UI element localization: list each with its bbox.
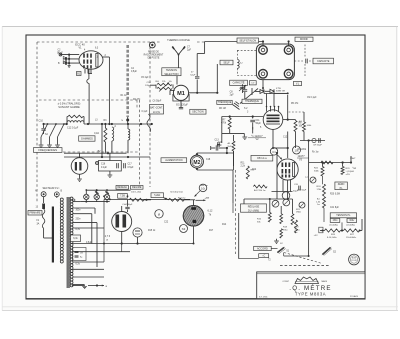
label capacite box — [313, 58, 334, 64]
small circle left of 12AT7 — [270, 148, 277, 155]
dashed link self bottom — [237, 75, 256, 77]
pot P1 — [310, 177, 316, 183]
svg-text:50µF: 50µF — [256, 123, 262, 125]
svg-text:M1: M1 — [177, 91, 185, 97]
title block border — [257, 272, 365, 299]
terminal block top wires — [262, 42, 264, 46]
resistor R23 — [341, 167, 344, 175]
resistor 0.1 ohm vertical — [104, 124, 106, 128]
svg-text:10t: 10t — [201, 186, 205, 190]
resistor R heater 2 — [169, 198, 185, 201]
dashed link block to capacite — [294, 60, 304, 62]
left loop wire — [238, 213, 240, 252]
svg-text:(+): (+) — [305, 177, 308, 179]
cap CH — [318, 138, 320, 143]
small circle below V3 — [180, 225, 188, 233]
mains terminal A — [41, 192, 46, 197]
svg-text:SELF: SELF — [223, 61, 230, 64]
wire from 277 down — [276, 153, 278, 199]
resistor ladder R27 — [344, 229, 360, 232]
label thermique box 1 — [217, 100, 232, 104]
label section box — [190, 109, 206, 114]
svg-text:DU POSTE: DU POSTE — [148, 58, 160, 60]
svg-text:R5 47k: R5 47k — [291, 103, 299, 105]
svg-text:SELF ETALON: SELF ETALON — [239, 39, 256, 42]
svg-text:ACCORD: ACCORD — [257, 247, 268, 250]
svg-text:0,1Ω: 0,1Ω — [94, 133, 99, 135]
ground posts below switches — [40, 137, 42, 145]
wire V2 grid row — [222, 116, 263, 118]
svg-text:DU ≈(MM): DU ≈(MM) — [248, 209, 259, 212]
wire bus y200 connections — [144, 199, 151, 201]
fuse F1 — [43, 197, 45, 203]
M1 trimmer network — [157, 83, 172, 85]
diode D1 — [256, 91, 260, 93]
inner dashed box bottom — [63, 151, 140, 153]
heater lamp 1 — [84, 194, 89, 199]
svg-text:MODIF: MODIF — [300, 38, 309, 41]
continuation arrow a — [88, 285, 104, 287]
hatch mark diagonal — [233, 102, 240, 110]
variable capacitor C15 — [262, 80, 264, 88]
svg-text:½ 12AU7: ½ 12AU7 — [251, 134, 263, 138]
svg-text:+HT: +HT — [205, 197, 210, 200]
tube V3a 12AT7 envelope — [277, 159, 298, 180]
heater lamp 2 — [94, 194, 99, 199]
svg-text:±20,0(8)a: ±20,0(8)a — [346, 225, 356, 227]
cap C10 — [43, 124, 45, 128]
shield dashed vertical separator — [149, 42, 151, 187]
dashed vertical separator right — [235, 170, 237, 254]
label thermo-couple — [160, 37, 197, 42]
label self box — [220, 60, 233, 65]
svg-text:SECTEUR 1V≈: SECTEUR 1V≈ — [42, 187, 60, 190]
pin row below 12AT7 — [272, 191, 293, 193]
tap bus verticals — [91, 214, 93, 244]
V3 pins — [193, 200, 195, 206]
wires terminal block bottom to V2 — [262, 88, 264, 92]
diagonal wire T3 to thermique — [240, 89, 258, 104]
terminal T3 — [259, 70, 268, 79]
transformer primary shield bar — [52, 207, 54, 263]
svg-text:C16: C16 — [101, 164, 106, 166]
svg-text:RÉGLAGE: RÉGLAGE — [248, 205, 260, 208]
svg-text:± 0.5% (TRALORS): ± 0.5% (TRALORS) — [58, 102, 81, 106]
wire down right col — [308, 141, 310, 163]
svg-text:52µF: 52µF — [190, 75, 196, 77]
transformer core — [67, 197, 70, 288]
svg-text:0.5µF: 0.5µF — [128, 167, 135, 169]
inductor self symbol — [237, 60, 239, 69]
svg-text:3A: 3A — [37, 222, 40, 225]
terminal T1 — [259, 46, 268, 55]
cap C19 above M2 — [211, 147, 216, 149]
terminal block body — [256, 44, 294, 80]
flexible lead wavy — [147, 114, 151, 132]
label reglage box — [241, 204, 267, 212]
svg-text:TENSION PL: TENSION PL — [336, 214, 351, 217]
svg-text:±2%: ±2% — [346, 174, 350, 176]
thermocouple junction symbol — [172, 47, 185, 55]
svg-text:C19: C19 — [218, 142, 223, 144]
filter box — [73, 248, 87, 261]
svg-text:SECTION: SECTION — [192, 110, 204, 114]
svg-text:PRIMAIRE: PRIMAIRE — [29, 212, 41, 215]
switch S1 arm — [278, 248, 285, 253]
small circle above 12AT7 — [293, 146, 301, 154]
svg-text:8-10,5kΩs: 8-10,5kΩs — [327, 237, 337, 239]
svg-text:ZÉRO: ZÉRO — [338, 183, 345, 186]
resistor row left box — [118, 194, 128, 199]
tube V6 envelope oscillator lower — [71, 158, 88, 175]
svg-text:1M: 1M — [80, 253, 83, 255]
label self etalon box — [237, 38, 259, 43]
label reseau box — [116, 186, 129, 190]
terminal small left of battery box — [96, 162, 99, 165]
label zero pl box — [335, 182, 347, 190]
trimmer circle — [312, 138, 316, 142]
svg-text:2x1,5v: 2x1,5v — [153, 111, 161, 114]
svg-text:M2: M2 — [193, 160, 200, 166]
wire M2 branch up — [233, 151, 235, 170]
svg-text:R9 220k: R9 220k — [298, 149, 307, 151]
svg-text:C12: C12 — [283, 137, 288, 139]
resistor R24b — [323, 197, 326, 209]
battery box B — [99, 161, 122, 172]
resistor R parallel above coil — [68, 115, 83, 118]
svg-text:6,3v: 6,3v — [73, 237, 78, 240]
transformer tap label box — [71, 235, 81, 242]
svg-text:609B GR: 609B GR — [276, 90, 285, 92]
svg-text:C22: C22 — [164, 222, 169, 224]
svg-text:SELECTION: SELECTION — [164, 73, 178, 76]
pot P2 — [299, 202, 305, 208]
svg-text:5,2kΩ: 5,2kΩ — [154, 195, 160, 197]
terminal T4 — [284, 70, 293, 79]
cap C13 bottom left — [217, 142, 219, 147]
svg-text:R2 47k: R2 47k — [133, 99, 141, 101]
svg-text:2µF: 2µF — [230, 94, 235, 96]
label zc box — [259, 254, 269, 258]
svg-text:MARS: MARS — [322, 280, 328, 283]
svg-text:0.1µF: 0.1µF — [101, 167, 108, 169]
cap C17 right — [123, 163, 125, 168]
wire V2 anode right — [283, 119, 296, 121]
svg-text:S.T. 1941: S.T. 1941 — [259, 296, 268, 298]
resistors below V3 row — [268, 213, 271, 223]
resistor R8 — [294, 121, 297, 132]
resistor R7 — [229, 117, 231, 119]
resistor A5 top — [232, 141, 235, 151]
svg-text:SUIVANT GAMME: SUIVANT GAMME — [58, 105, 80, 109]
shield box oscillator dashed top — [37, 41, 160, 43]
svg-text:2µF: 2µF — [187, 50, 192, 52]
svg-text:CAPACITE: CAPACITE — [317, 60, 330, 63]
svg-text:300v: 300v — [349, 220, 355, 222]
M1 wires — [176, 76, 178, 85]
tube V1 pin wires — [84, 69, 86, 74]
wire top bus to terminal block — [205, 41, 263, 43]
label capacite lower box — [230, 80, 248, 85]
secondary tap wires — [73, 201, 80, 203]
svg-text:EG. 120µF: EG. 120µF — [176, 104, 188, 107]
svg-text:BAT.-CONT.: BAT.-CONT. — [150, 106, 163, 109]
svg-text:C6 50pF: C6 50pF — [153, 101, 162, 103]
switch S2 arm — [323, 248, 331, 255]
bottom-left shield dashed — [36, 165, 38, 202]
shielded cable end dot — [126, 119, 129, 122]
cap C11 — [252, 117, 254, 119]
svg-text:ALIMENTATION: ALIMENTATION — [165, 159, 183, 162]
V2 cathode down — [272, 129, 274, 148]
svg-text:120µF: 120µF — [145, 85, 152, 87]
transformer secondary winding — [70, 197, 73, 200]
svg-text:10t: 10t — [169, 80, 172, 83]
terminal T2 — [284, 46, 293, 55]
lamp wiper marks — [95, 192, 99, 194]
svg-text:300v: 300v — [76, 210, 82, 212]
svg-text:1w: 1w — [317, 204, 320, 206]
heater lamp 3 — [104, 194, 109, 199]
approval stamp circle — [349, 254, 360, 265]
tube V3a electrodes — [282, 163, 284, 168]
shielded cable dashed gray band — [126, 45, 129, 117]
wires above pots — [269, 199, 271, 213]
junction row y199 — [104, 198, 190, 200]
label tension box — [330, 213, 356, 218]
label VL box — [294, 81, 302, 85]
svg-text:R15 1k: R15 1k — [148, 230, 156, 232]
terminal prise de raccordement — [149, 42, 155, 48]
svg-text:150-40kΩs: 150-40kΩs — [346, 237, 356, 239]
svg-text:0,5µF: 0,5µF — [86, 242, 93, 244]
svg-text:C12 0.1µF: C12 0.1µF — [67, 126, 79, 129]
svg-text:C9 0,1µF: C9 0,1µF — [307, 97, 317, 99]
svg-text:RÉGIME: RÉGIME — [132, 186, 142, 189]
svg-text:FREQUENCES: FREQUENCES — [38, 148, 57, 152]
shield dashed vertical x139 — [139, 100, 141, 187]
mains wire B to primary — [56, 197, 58, 198]
pot circle left of V3 — [155, 210, 163, 218]
svg-text:CONST: CONST — [282, 281, 289, 283]
resistor R24 — [323, 184, 326, 196]
label 300V box — [347, 218, 357, 222]
meter M1 body — [173, 85, 188, 100]
dashed link self top — [237, 49, 256, 51]
tube V2 top pins — [266, 107, 268, 112]
resistor R heater 1 — [129, 198, 144, 201]
PSU bottom wire — [284, 255, 309, 257]
diode D2 — [265, 90, 270, 92]
svg-text:≈C: ≈C — [262, 255, 265, 258]
svg-text:1MΩ: 1MΩ — [296, 212, 301, 214]
wires PSU verticals — [322, 176, 324, 184]
tube V4 electrodes — [116, 215, 120, 228]
label alimentation box — [161, 158, 187, 163]
drawing border frame — [26, 35, 365, 299]
svg-text:POUR: POUR — [351, 260, 357, 262]
svg-text:CH 50µF: CH 50µF — [313, 145, 322, 147]
mains terminal B — [54, 192, 59, 197]
node row main — [44, 123, 68, 125]
svg-text:C21 8µF: C21 8µF — [330, 207, 339, 209]
heater wires under tubes — [104, 243, 194, 245]
lamp top wires — [85, 190, 87, 194]
ground mid — [276, 239, 278, 241]
resistor R22 — [321, 167, 324, 177]
svg-text:RESEAU: RESEAU — [117, 186, 127, 189]
svg-text:250v: 250v — [76, 219, 82, 221]
12AT7 pins down — [282, 180, 284, 192]
small circle below 12AT7 — [282, 192, 290, 200]
svg-text:S3: S3 — [182, 227, 186, 231]
M2 top wire right — [196, 153, 198, 155]
svg-text:Rx 10w: Rx 10w — [178, 198, 186, 200]
coil L1 — [67, 121, 84, 123]
svg-text:9kΩ: 9kΩ — [228, 146, 232, 148]
cap C7 on wire — [195, 76, 199, 78]
svg-text:RH: RH — [156, 81, 160, 83]
cap C20 box — [298, 186, 300, 191]
svg-text:R20 0,5M: R20 0,5M — [330, 194, 340, 196]
wire row y140 — [300, 140, 325, 142]
resistor R horizontal 270k — [253, 185, 267, 188]
svg-text:50 10kΩ 10w: 50 10kΩ 10w — [170, 192, 183, 194]
svg-text:2,7 6: 2,7 6 — [105, 235, 111, 238]
svg-text:GAMMES: GAMMES — [81, 136, 93, 140]
tube V2 envelope — [263, 110, 283, 130]
input ground arrow — [68, 63, 70, 68]
extra junction dots — [140, 123, 142, 125]
resistor small mid — [280, 229, 283, 238]
title block logo — [295, 277, 319, 284]
svg-text:Rx 1w: Rx 1w — [312, 152, 319, 154]
label thermique box 2 — [242, 99, 262, 103]
svg-text:R6 1M: R6 1M — [219, 108, 226, 110]
pot circle above V3 right — [199, 184, 207, 192]
svg-text:50µF: 50µF — [293, 191, 299, 193]
svg-text:30pF: 30pF — [58, 52, 64, 54]
resistor R25 — [295, 220, 298, 233]
vertical from V3 right going down — [232, 203, 234, 213]
label 150V box — [330, 218, 340, 222]
label etal box — [249, 81, 256, 85]
inner dashed box right join — [136, 100, 138, 108]
coil L2 vertical — [127, 124, 129, 129]
battery box ground — [109, 171, 111, 175]
svg-text:C10: C10 — [39, 120, 44, 123]
linkage dashed diagonal — [284, 253, 322, 264]
svg-text:150v: 150v — [333, 220, 339, 222]
label accord box — [254, 246, 272, 250]
V1 grid input network — [61, 54, 79, 56]
wire V1 anode to right — [103, 56, 109, 58]
svg-text:C5 2µF: C5 2µF — [141, 77, 149, 79]
small valve below V4 — [133, 228, 142, 237]
label porte box — [28, 211, 42, 216]
bottom loop wire reglage — [239, 258, 259, 260]
P coil — [111, 123, 113, 125]
meter M2 body — [190, 155, 203, 168]
svg-text:R14: R14 — [222, 224, 227, 226]
label regime box — [131, 186, 144, 190]
transformer bottom ground — [72, 285, 85, 287]
svg-text:C1: C1 — [272, 150, 276, 154]
ground V2 — [242, 137, 247, 139]
pot circles row above reglage — [272, 200, 279, 207]
wire anode up to diode row — [287, 95, 289, 120]
node dots — [43, 123, 45, 125]
svg-text:A3 270k 1w: A3 270k 1w — [254, 189, 266, 192]
label FREQUENCES box — [34, 148, 63, 153]
svg-text:100 1,2kΩ: 100 1,2kΩ — [131, 191, 141, 193]
label DB box — [251, 155, 273, 161]
svg-text:6,12: 6,12 — [208, 210, 213, 213]
label bat-cont box — [150, 105, 164, 115]
svg-text:TYPE M803A: TYPE M803A — [295, 292, 326, 297]
svg-text:0,5µF: 0,5µF — [131, 71, 138, 73]
resistor R9 middle — [246, 166, 249, 179]
wire to +HT arrow — [184, 199, 195, 201]
svg-text:CV: CV — [251, 83, 255, 85]
tube V3 envelope hatched — [183, 206, 204, 227]
tube V1 envelope — [79, 51, 103, 69]
transformer primary winding — [60, 198, 63, 201]
label GAMMES box — [79, 136, 95, 141]
lamp bottom row — [80, 201, 109, 203]
svg-text:DB 12≈a: DB 12≈a — [257, 157, 267, 160]
wire from node to B2 dot — [101, 124, 103, 157]
svg-text:10µF: 10µF — [217, 145, 223, 147]
svg-text:TENSION: TENSION — [166, 69, 177, 72]
shield box oscillator dashed left — [36, 42, 38, 152]
svg-text:R17: R17 — [209, 230, 214, 232]
svg-text:POLAKS: POLAKS — [350, 295, 359, 298]
switch arms gammes — [41, 124, 48, 137]
M2 bottom wire right — [196, 168, 198, 170]
wire V1 cathode down with hop — [88, 69, 90, 79]
label 52k box — [151, 193, 164, 198]
tube V4 envelope — [112, 212, 132, 232]
wire V2 bottom row — [222, 132, 245, 134]
dashed modif down — [304, 45, 306, 58]
vertical link to capacite area — [216, 64, 218, 93]
svg-text:ø: ø — [158, 212, 160, 216]
svg-text:PRISE DE: PRISE DE — [148, 52, 159, 54]
inner dashed box frequences top — [39, 99, 137, 101]
tube V1 electrodes — [83, 54, 85, 58]
label B1 box — [77, 72, 82, 76]
diode row to V2 pins — [266, 94, 268, 107]
svg-text:0,1µF: 0,1µF — [142, 111, 149, 113]
label modif box — [295, 37, 313, 41]
svg-text:CAPACITÉ: CAPACITÉ — [233, 82, 245, 85]
svg-text:R12: R12 — [252, 169, 257, 171]
svg-text:±10,0(8)a: ±10,0(8)a — [329, 225, 339, 227]
cap C8 top — [242, 89, 247, 91]
tube V2 grid bars — [267, 115, 280, 117]
svg-text:THERMO-COUPLE: THERMO-COUPLE — [167, 38, 190, 42]
long vertical bus PSU — [308, 163, 310, 257]
terminal G — [59, 53, 62, 56]
svg-text:R1 1k: R1 1k — [121, 95, 128, 97]
component F2 — [319, 227, 323, 233]
label tension selection box — [162, 68, 181, 76]
wire down to 12AT7 — [287, 148, 289, 158]
svg-text:THERMIQUE: THERMIQUE — [245, 101, 259, 103]
svg-text:C17: C17 — [128, 164, 133, 166]
lamp top bus — [86, 189, 130, 191]
